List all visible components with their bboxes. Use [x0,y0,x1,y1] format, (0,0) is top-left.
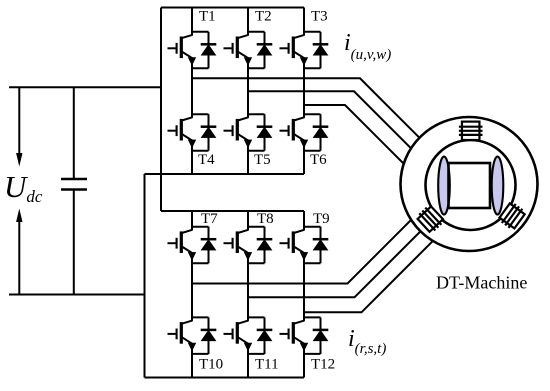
wire: top bridge leg 3 collector riser [303,8,305,32]
transistor T9 (IGBT) [280,227,308,264]
svg-text:T7: T7 [201,211,218,227]
freewheeling diode of T1 [191,32,216,69]
Udc voltage arrow (up) [16,209,22,295]
svg-text:T3: T3 [311,9,328,25]
transistor T2 (IGBT) [224,32,252,69]
wire: phase output w of top bridge [304,105,408,168]
svg-text:T9: T9 [313,211,330,227]
wire: lower bridge leg 2 collector riser [247,211,249,227]
svg-text:T1: T1 [199,9,216,25]
stator coil (top) [459,122,483,140]
freewheeling diode of T8 [247,227,272,264]
freewheeling diode of T5 [247,114,272,151]
wire: top bridge leg 3 midpoint [303,68,305,114]
rotor inner circle [426,140,516,230]
svg-text:T11: T11 [255,357,279,373]
wire: DC- bottom rail from source [9,294,145,296]
wire: phase output r of lower bridge [192,214,418,284]
rotor end-ring right [492,157,504,215]
transistor T12 (IGBT) [280,317,308,354]
rotor body square [449,163,491,208]
freewheeling diode of T7 [191,227,216,264]
transistor T3 (IGBT) [280,32,308,69]
wire: phase output s of lower bridge [248,227,425,297]
wire: lower bridge leg 1 emitter drop [191,354,193,378]
wire: top bridge leg 1 collector riser [191,8,193,32]
wire: DC+ vertical bus feeding both bridges [160,8,162,212]
wire: phase output t of lower bridge [304,237,437,312]
svg-text:T5: T5 [254,152,271,168]
svg-text:Udc: Udc [4,169,43,206]
wire: phase output u of top bridge [192,78,424,142]
transistor T8 (IGBT) [224,227,252,264]
DT-Machine stator outer circle [401,117,538,251]
transistor T5 (IGBT) [224,114,252,151]
wire: lower bridge leg 1 midpoint [191,263,193,317]
freewheeling diode of T9 [303,227,328,264]
freewheeling diode of T2 [247,32,272,69]
wire: top bridge leg 3 emitter drop [303,151,305,174]
wire: DC+ top rail from source to inverter [9,86,161,88]
wire: top bridge leg 1 emitter drop [191,151,193,174]
freewheeling diode of T10 [191,317,216,354]
stator coil (lower left) [416,204,446,234]
freewheeling diode of T6 [303,114,328,151]
wire: top bridge positive rail [161,7,304,9]
freewheeling diode of T11 [247,317,272,354]
wire: phase output v of top bridge [248,91,416,153]
svg-text:T4: T4 [198,152,215,168]
svg-text:i(u,v,w): i(u,v,w) [344,30,391,63]
capacitor C (DC-link) [61,87,87,294]
svg-text:i(r,s,t): i(r,s,t) [348,326,386,357]
svg-text:DT-Machine: DT-Machine [436,273,527,293]
svg-text:T12: T12 [311,357,335,373]
transistor T4 (IGBT) [168,114,196,151]
stator coil (lower right) [498,201,527,231]
rotor end-ring left [438,157,450,215]
transistor T11 (IGBT) [224,317,252,354]
wire: top bridge leg 2 midpoint [247,68,249,114]
wire: lower bridge leg 3 collector riser [303,211,305,227]
transistor T6 (IGBT) [280,114,308,151]
wire: top bridge leg 1 midpoint [191,68,193,114]
wire: top bridge leg 2 emitter drop [247,151,249,174]
wire: DC- vertical bus [144,174,146,378]
Udc voltage arrow (down) [16,87,22,166]
wire: lower bridge leg 1 collector riser [191,211,193,227]
wire: top bridge leg 2 collector riser [247,8,249,32]
transistor T7 (IGBT) [168,227,196,264]
transistor T10 (IGBT) [168,317,196,354]
wire: lower bridge leg 3 emitter drop [303,354,305,378]
svg-text:T2: T2 [255,9,272,25]
wire: lower bridge leg 3 midpoint [303,263,305,317]
freewheeling diode of T4 [191,114,216,151]
wire: lower bridge negative rail [145,377,305,379]
svg-text:T8: T8 [257,211,274,227]
wire: lower bridge leg 2 midpoint [247,263,249,317]
svg-text:T10: T10 [199,357,223,373]
wire: lower bridge leg 2 emitter drop [247,354,249,378]
freewheeling diode of T3 [303,32,328,69]
wire: top bridge negative rail [145,173,305,175]
svg-text:T6: T6 [310,152,327,168]
wire: lower bridge positive rail [161,210,304,212]
freewheeling diode of T12 [303,317,328,354]
transistor T1 (IGBT) [168,32,196,69]
